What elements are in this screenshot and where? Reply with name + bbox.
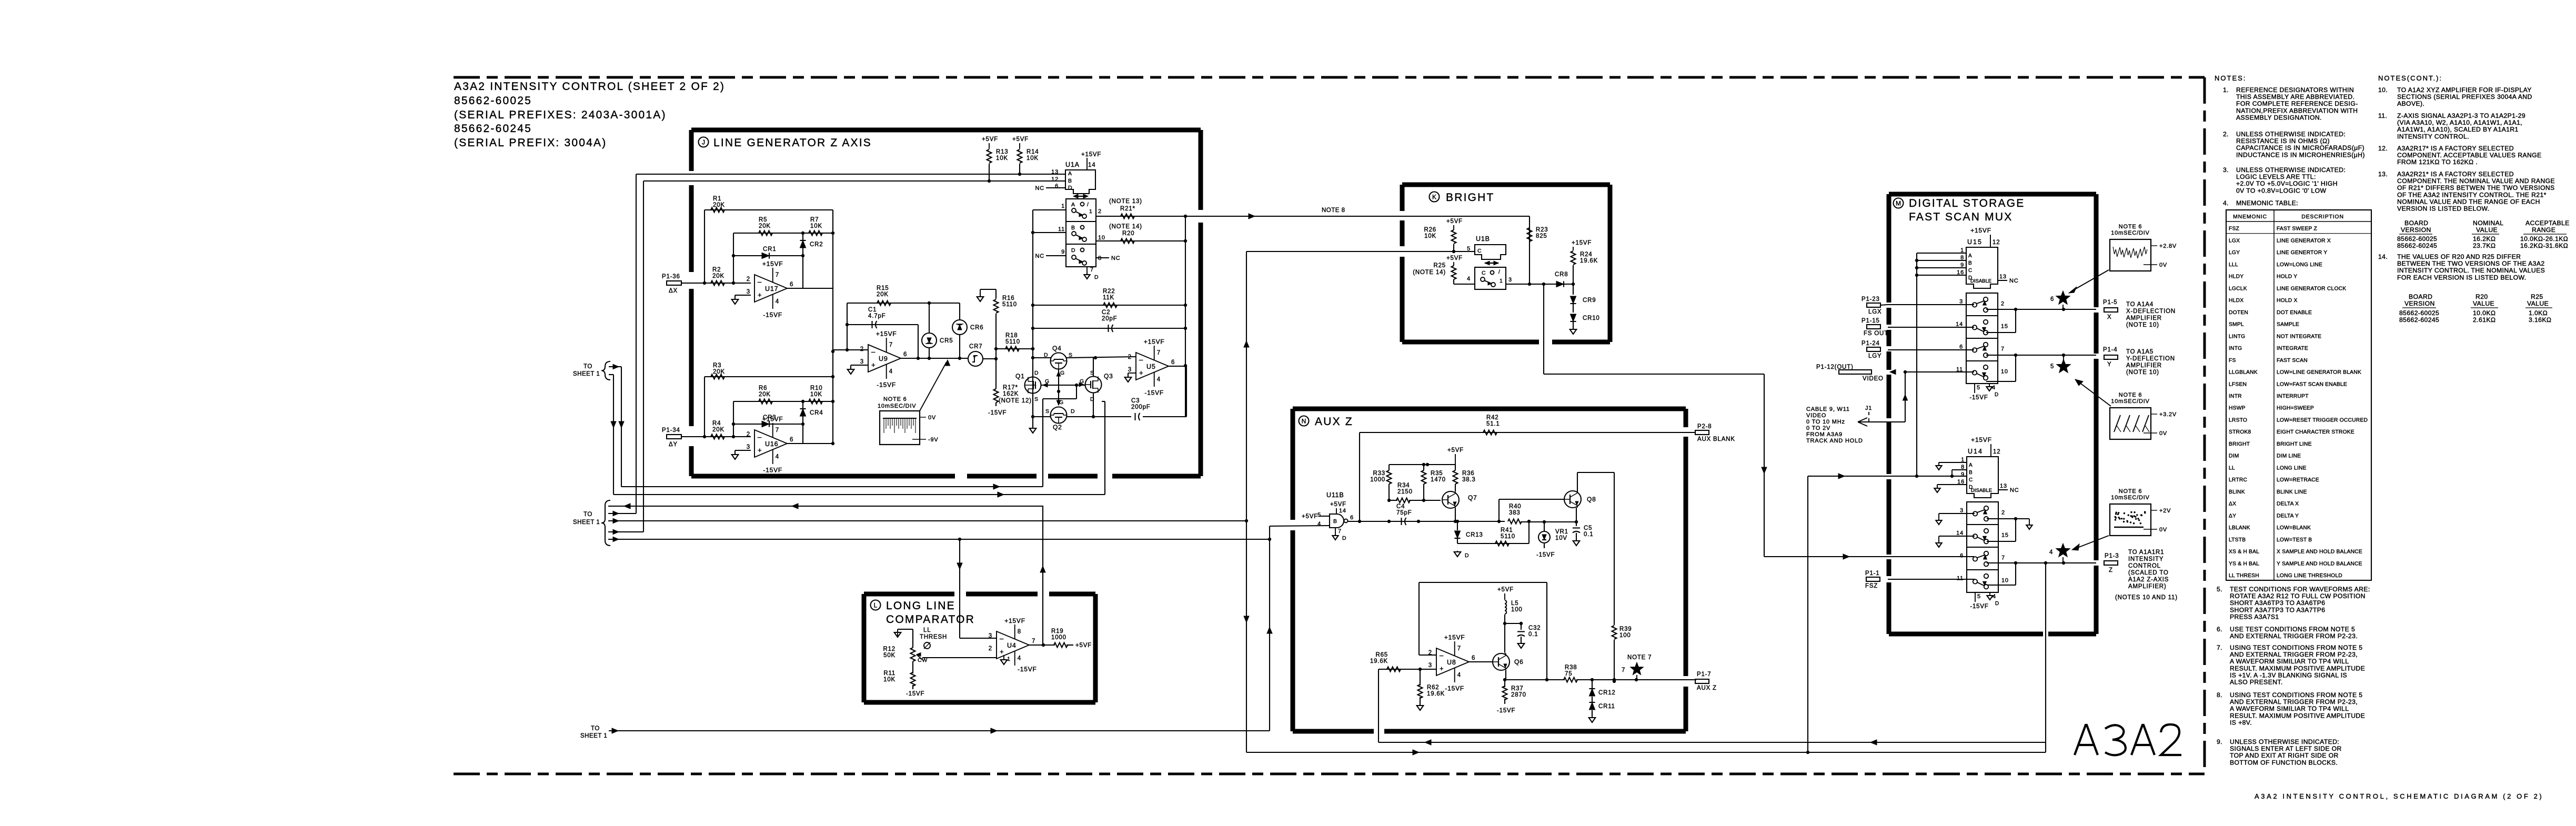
svg-text:10K: 10K	[810, 391, 822, 398]
svg-text:-15VF: -15VF	[1970, 603, 1988, 610]
svg-text:AUX BLANK: AUX BLANK	[1697, 436, 1735, 442]
svg-text:0V: 0V	[2159, 430, 2167, 437]
double arrow U1B	[1485, 263, 1498, 264]
svg-text:6: 6	[1350, 515, 1354, 521]
svg-text:7: 7	[889, 342, 893, 348]
wire U15 sec1 input from P1-23	[1888, 304, 1974, 305]
svg-text:LGCLK: LGCLK	[2229, 286, 2247, 291]
svg-text:G: G	[1060, 370, 1065, 376]
svg-text:100: 100	[1511, 607, 1523, 613]
svg-text:SECTIONS (SERIAL PREFIXES 3004: SECTIONS (SERIAL PREFIXES 3004A AND	[2397, 93, 2532, 100]
svg-text:2: 2	[1098, 208, 1102, 215]
svg-text:5: 5	[1977, 385, 1980, 391]
vertical x2413 U11B feed	[1269, 526, 1270, 731]
svg-text:ALSO PRESENT.: ALSO PRESENT.	[2230, 679, 2283, 686]
svg-text:L: L	[874, 602, 878, 609]
wire BRIGHT C input	[1402, 251, 1475, 252]
svg-text:RANGE: RANGE	[2532, 226, 2555, 234]
svg-text:2: 2	[1428, 650, 1432, 656]
svg-text:9: 9	[1961, 471, 1965, 478]
svg-text:DELTA X: DELTA X	[2277, 501, 2299, 507]
svg-text:D: D	[1090, 396, 1094, 402]
svg-text:3: 3	[747, 289, 750, 295]
wire U15 sec1 output y588	[1986, 309, 2096, 310]
svg-text:(NOTE 10): (NOTE 10)	[2126, 322, 2159, 328]
svg-text:R20: R20	[1122, 230, 1135, 237]
svg-text:B: B	[1071, 225, 1075, 231]
svg-text:10mSEC/DIV: 10mSEC/DIV	[2111, 398, 2149, 405]
svg-text:R39: R39	[1619, 626, 1632, 632]
resistor R23 825	[1529, 216, 1530, 284]
diode CR8	[1544, 284, 1573, 285]
svg-text:NOTE 6: NOTE 6	[2119, 392, 2142, 398]
svg-text:/: /	[1087, 202, 1089, 208]
svg-text:LINTG: LINTG	[2229, 334, 2245, 339]
svg-text:13: 13	[1999, 274, 2007, 280]
svg-text:+15VF: +15VF	[1004, 617, 1025, 624]
ground below x1963	[1032, 424, 1033, 428]
svg-text:LOW=TEST B: LOW=TEST B	[2277, 537, 2312, 543]
svg-text:20K: 20K	[877, 291, 889, 298]
svg-text:7: 7	[2001, 346, 2005, 352]
svg-text:PRESS A3A7S1: PRESS A3A7S1	[2230, 613, 2279, 620]
svg-text:R17*: R17*	[1003, 385, 1018, 391]
svg-text:3: 3	[1508, 277, 1512, 283]
svg-text:+2.0V TO +5.0V=LOGIC '1' HIGH: +2.0V TO +5.0V=LOGIC '1' HIGH	[2236, 180, 2338, 187]
svg-text:SMPL: SMPL	[2229, 322, 2244, 328]
vertical x2253 output node	[1185, 216, 1186, 417]
svg-text:6: 6	[1960, 552, 1964, 559]
svg-text:SIGNALS ENTER AT LEFT SIDE OR: SIGNALS ENTER AT LEFT SIDE OR	[2230, 745, 2342, 752]
vertical x1982 comparator output	[1042, 506, 1043, 644]
svg-text:CR7: CR7	[969, 344, 982, 350]
svg-text:-15VF: -15VF	[1445, 685, 1464, 692]
svg-text:Y: Y	[2107, 361, 2111, 368]
svg-text:R25: R25	[2531, 293, 2543, 300]
svg-text:HOLD X: HOLD X	[2277, 298, 2298, 304]
svg-text:23.7KΩ: 23.7KΩ	[2473, 242, 2495, 249]
svg-text:B: B	[1968, 260, 1972, 266]
svg-text:UNLESS OTHERWISE INDICATED:: UNLESS OTHERWISE INDICATED:	[2230, 738, 2339, 746]
svg-text:A WAVEFORM SIMILIAR TO TP4 WIL: A WAVEFORM SIMILIAR TO TP4 WILL	[2230, 658, 2349, 665]
transistor Q3 FET	[1085, 377, 1102, 393]
svg-text:4: 4	[1317, 521, 1321, 527]
svg-text:–: –	[1440, 651, 1444, 659]
wire R16 to node	[995, 314, 997, 359]
svg-text:LONG LINE: LONG LINE	[2277, 465, 2307, 471]
svg-text:Q3: Q3	[1104, 372, 1113, 380]
svg-text:D: D	[1034, 370, 1039, 376]
wire U15 sec2 input from P1-15	[1888, 327, 1974, 328]
svg-text:P1-36: P1-36	[662, 274, 680, 280]
svg-text:INTENSITY: INTENSITY	[2128, 556, 2164, 562]
arrow wavebox1 to star6	[2072, 270, 2109, 291]
svg-text:TO: TO	[583, 364, 592, 370]
vertical x3436 select feed from bus	[1807, 476, 1808, 752]
vertical x1963 main node	[1032, 210, 1033, 424]
svg-text:CR5: CR5	[940, 338, 953, 344]
svg-text:LL THRESH: LL THRESH	[2229, 573, 2259, 579]
wire Q1 Q3 gate	[1041, 385, 1085, 386]
svg-text:FSZ: FSZ	[1865, 583, 1878, 589]
svg-text:NOT INTEGRATE: NOT INTEGRATE	[2277, 334, 2321, 339]
svg-text:(SERIAL PREFIXES: 2403A-3001A): (SERIAL PREFIXES: 2403A-3001A)	[454, 109, 667, 121]
vertical x3068 to R39	[1614, 472, 1615, 625]
svg-text:INTEGRATE: INTEGRATE	[2277, 346, 2308, 351]
U14 sec2 input gnd stub	[1939, 536, 1975, 537]
svg-text:COMPONENT. ACCEPTABLE VALUES R: COMPONENT. ACCEPTABLE VALUES RANGE	[2397, 152, 2542, 159]
svg-text:6: 6	[2050, 296, 2054, 303]
svg-text:INDUCTANCE IS IN MICROHENRIES(: INDUCTANCE IS IN MICROHENRIES(μH)	[2236, 151, 2365, 158]
svg-text:2150: 2150	[1397, 489, 1413, 495]
svg-text:NOTE 6: NOTE 6	[2119, 224, 2142, 230]
svg-text:A WAVEFORM SIMILIAR TO TP4 WIL: A WAVEFORM SIMILIAR TO TP4 WILL	[2230, 705, 2349, 712]
svg-text:10.0KΩ: 10.0KΩ	[2473, 309, 2495, 317]
svg-text:B: B	[1969, 470, 1973, 476]
svg-text:D: D	[1995, 601, 1999, 607]
svg-text:TEST CONDITIONS FOR WAVEFORMS: TEST CONDITIONS FOR WAVEFORMS ARE:	[2230, 586, 2370, 593]
svg-text:A3A2R17* IS A FACTORY SELECTED: A3A2R17* IS A FACTORY SELECTED	[2397, 145, 2514, 152]
svg-text:AND EXTERNAL TRIGGER FROM P2-2: AND EXTERNAL TRIGGER FROM P2-23.	[2230, 632, 2358, 640]
svg-text:HSWP: HSWP	[2229, 406, 2246, 411]
svg-text:R35: R35	[1431, 470, 1443, 477]
svg-text:SHEET 1: SHEET 1	[573, 519, 600, 526]
svg-text:13.: 13.	[2378, 170, 2388, 178]
transistor Q4 FET	[1051, 353, 1067, 369]
svg-text:MNEMONIC TABLE:: MNEMONIC TABLE:	[2236, 199, 2298, 207]
wire R22 line y580	[1033, 305, 1185, 306]
wire Q8 collector	[1577, 472, 1578, 493]
svg-text:3: 3	[1428, 662, 1432, 669]
svg-text:NOTE 8: NOTE 8	[1322, 207, 1345, 214]
svg-text:ABOVE).: ABOVE).	[2397, 100, 2424, 107]
svg-text:+: +	[1139, 369, 1143, 377]
svg-text:1.: 1.	[2223, 86, 2229, 94]
svg-text:+15VF: +15VF	[762, 415, 783, 422]
svg-text:BOTTOM OF FUNCTION BLOCKS.: BOTTOM OF FUNCTION BLOCKS.	[2230, 759, 2338, 766]
U14 sec3 input wire y1058	[1889, 556, 1975, 557]
svg-text:C1: C1	[868, 307, 877, 313]
svg-text:U4: U4	[1007, 642, 1017, 649]
svg-text:VALUE: VALUE	[2476, 226, 2498, 234]
svg-text:LOW=RETRACE: LOW=RETRACE	[2277, 477, 2319, 483]
svg-text:LBLANK: LBLANK	[2229, 525, 2250, 531]
svg-text:CR11: CR11	[1598, 703, 1615, 710]
svg-text:SHORT A3A6TP3 TO A3A6TP6: SHORT A3A6TP3 TO A3A6TP6	[2230, 599, 2325, 607]
svg-text:FOR EACH VERSION IS LISTED BEL: FOR EACH VERSION IS LISTED BELOW.	[2397, 274, 2527, 281]
svg-text:YS & H BAL: YS & H BAL	[2229, 561, 2259, 567]
ground R12 top	[897, 631, 898, 632]
vertical C1 right to output	[918, 325, 919, 358]
svg-text:AMPLIFIER: AMPLIFIER	[2126, 315, 2162, 321]
svg-text:P1-3: P1-3	[2105, 553, 2119, 559]
svg-text:7: 7	[776, 272, 779, 278]
block border DIGITAL STORAGE FAST SCAN MUX	[1889, 192, 2096, 197]
svg-text:(NOTES 10 AND 11): (NOTES 10 AND 11)	[2115, 595, 2178, 601]
svg-text:A: A	[1068, 170, 1072, 177]
wire y905 select feed	[1812, 476, 1967, 477]
svg-text:–: –	[871, 348, 876, 356]
svg-text:20K: 20K	[713, 369, 725, 375]
wire U15 sec4 output to P1-12 VIDEO	[1905, 371, 1974, 372]
svg-text:VIDEO: VIDEO	[1806, 412, 1826, 419]
vertical x1824 into comparator	[959, 539, 960, 630]
wire y1058 into U14 sec3	[1764, 556, 1974, 557]
svg-text:+5VF: +5VF	[1330, 501, 1346, 508]
svg-text:DESCRIPTION: DESCRIPTION	[2301, 214, 2344, 220]
bus wire y1010 to comparator	[959, 531, 960, 532]
svg-text:OF R21* DIFFERS BETWEN THE TWO: OF R21* DIFFERS BETWEN THE TWO VERSIONS	[2397, 184, 2555, 192]
svg-text:Q1: Q1	[1015, 372, 1025, 380]
vertical R42 to U11B output	[1359, 432, 1360, 521]
transistor Q2 FET	[1051, 407, 1067, 424]
svg-text:7: 7	[1090, 267, 1094, 273]
wire U1B output	[1506, 284, 1544, 285]
U1A switch box	[1066, 199, 1096, 267]
diode CR13	[1457, 521, 1458, 529]
svg-text:-9V: -9V	[928, 437, 939, 443]
svg-text:6: 6	[1055, 183, 1059, 189]
svg-text:+15VF: +15VF	[1970, 227, 1991, 234]
svg-text:CR4: CR4	[810, 410, 823, 416]
svg-text:85662-60025: 85662-60025	[2399, 309, 2439, 317]
svg-text:7: 7	[2001, 555, 2005, 561]
svg-text:U9: U9	[879, 355, 888, 362]
bus wire y344 to U1A pin12	[643, 180, 1065, 182]
wire y711 to digital storage	[1544, 374, 1764, 375]
svg-text:Q2: Q2	[1053, 424, 1062, 431]
svg-text:-15VF: -15VF	[763, 311, 782, 319]
svg-text:SAMPLE: SAMPLE	[2277, 322, 2299, 328]
svg-text:0.1: 0.1	[1584, 531, 1593, 538]
svg-text:7: 7	[1032, 638, 1035, 644]
svg-text:+: +	[1440, 664, 1444, 672]
svg-text:+15VF: +15VF	[1081, 152, 1101, 158]
svg-text:FAST SCAN MUX: FAST SCAN MUX	[1909, 211, 2012, 223]
svg-text:8: 8	[1098, 255, 1102, 261]
svg-text:R15: R15	[877, 285, 889, 291]
svg-text:R37: R37	[1511, 686, 1524, 692]
svg-text:NC: NC	[1111, 255, 1121, 261]
U14 sec4 input from P1-1 FSZ	[1888, 579, 1975, 580]
wire R1 loop	[705, 209, 833, 210]
wire C3 to output node	[1143, 416, 1186, 417]
svg-text:P1-23: P1-23	[1861, 296, 1880, 303]
svg-text:R36: R36	[1462, 470, 1475, 477]
svg-text:0V: 0V	[2159, 262, 2167, 268]
star 5	[2057, 359, 2071, 372]
svg-text:LINE GENERTOR Y: LINE GENERTOR Y	[2277, 250, 2327, 256]
wire Q1 vertical	[1032, 366, 1033, 377]
svg-text:CR10: CR10	[1583, 315, 1600, 321]
svg-text:10K: 10K	[1424, 233, 1436, 239]
svg-text:+: +	[758, 291, 762, 299]
svg-text:Q6: Q6	[1514, 658, 1524, 666]
U15 select bus	[1917, 253, 1966, 254]
svg-text:2: 2	[989, 646, 992, 652]
svg-text:5110: 5110	[1002, 301, 1017, 308]
svg-text:OF THE A3A2 INTENSITY CONTROL.: OF THE A3A2 INTENSITY CONTROL. THE R21*	[2397, 191, 2547, 198]
transistor Q7	[1442, 491, 1459, 508]
diode CR11	[1592, 697, 1593, 702]
svg-text:UNLESS OTHERWISE INDICATED:: UNLESS OTHERWISE INDICATED:	[2236, 166, 2346, 174]
svg-text:1.0KΩ: 1.0KΩ	[2529, 309, 2548, 317]
svg-text:XS & H BAL: XS & H BAL	[2229, 549, 2259, 555]
svg-text:2: 2	[2001, 510, 2005, 516]
svg-text:FS OUT: FS OUT	[1864, 330, 1888, 337]
U14 sec4 output to node	[1987, 585, 2016, 586]
svg-text:CR12: CR12	[1598, 690, 1616, 696]
wire R3 loop	[705, 376, 833, 377]
svg-text:LOW=LONG LINE: LOW=LONG LINE	[2277, 262, 2322, 268]
svg-text:X-DEFLECTION: X-DEFLECTION	[2126, 308, 2176, 315]
svg-text:+5VF: +5VF	[1075, 642, 1092, 649]
vertical x3353 down	[1764, 374, 1765, 557]
svg-text:G: G	[1059, 399, 1064, 406]
svg-text:STROK8: STROK8	[2229, 429, 2251, 435]
svg-text:CABLE 9, W11: CABLE 9, W11	[1806, 406, 1850, 412]
svg-text:+5VF: +5VF	[1447, 447, 1464, 454]
svg-text:R40: R40	[1509, 503, 1522, 510]
svg-text:11: 11	[1058, 226, 1065, 233]
wavebox tick -9V	[912, 439, 926, 440]
svg-text:K: K	[1432, 194, 1436, 201]
svg-text:20pF: 20pF	[1102, 316, 1117, 322]
resistor R11 10K	[912, 661, 913, 673]
svg-text:A: A	[1968, 253, 1972, 259]
wire Q8 emitter	[1576, 508, 1577, 522]
svg-text:P1-5: P1-5	[2103, 299, 2118, 306]
transistor Q1 FET	[1025, 377, 1041, 394]
svg-text:75pF: 75pF	[1396, 510, 1412, 516]
svg-text:LOW=LINE GENERATOR BLANK: LOW=LINE GENERATOR BLANK	[2277, 370, 2361, 376]
wire Q6 collector	[1505, 652, 1506, 656]
wire NOTE8 inside BRIGHT to R23	[1402, 216, 1529, 217]
svg-text:12: 12	[1993, 449, 2000, 455]
svg-text:4.7pF: 4.7pF	[868, 313, 885, 319]
svg-text:85662-60025: 85662-60025	[454, 95, 532, 107]
svg-text:ΔY: ΔY	[669, 441, 678, 448]
svg-text:9.: 9.	[2217, 738, 2222, 746]
svg-text:0V: 0V	[928, 415, 936, 421]
svg-text:10.0KΩ-26.1KΩ: 10.0KΩ-26.1KΩ	[2520, 235, 2568, 243]
svg-text:Q7: Q7	[1468, 494, 1477, 501]
svg-text:+15VF: +15VF	[762, 260, 783, 267]
svg-text:VR1: VR1	[1555, 529, 1568, 535]
svg-text:6: 6	[1472, 655, 1475, 661]
svg-text:D: D	[1094, 274, 1099, 280]
svg-text:ΔX: ΔX	[2229, 501, 2236, 507]
feedback rect U8 top	[1419, 582, 1547, 583]
svg-text:LLL: LLL	[2229, 262, 2238, 268]
svg-text:R12: R12	[883, 646, 896, 652]
svg-text:D: D	[1068, 185, 1072, 191]
resistor R62 19.6K	[1418, 668, 1422, 671]
svg-text:2: 2	[860, 346, 864, 352]
label -15VF below R11	[912, 685, 913, 689]
svg-text:ΔY: ΔY	[2229, 513, 2236, 519]
vertical x1610 feedback	[847, 303, 848, 350]
svg-text:10.: 10.	[2378, 86, 2388, 94]
svg-text:LL: LL	[2229, 465, 2235, 471]
svg-text:TO A1A4: TO A1A4	[2126, 301, 2154, 308]
wire R12 top	[897, 629, 898, 637]
wire J1 to VIDEO node	[1858, 421, 1905, 422]
svg-text:LGX: LGX	[2229, 238, 2240, 244]
svg-text:P1-4: P1-4	[2103, 347, 2118, 353]
resistor R17* 162K	[994, 389, 999, 402]
svg-text:R5: R5	[759, 217, 767, 223]
svg-text:C3: C3	[1131, 398, 1140, 404]
wire Q-drain down x2046	[1076, 385, 1077, 399]
wire BRIGHT input y478	[1246, 251, 1475, 252]
op-amp U16	[754, 430, 787, 457]
svg-text:VIDEO: VIDEO	[1863, 376, 1884, 382]
wire feedback rail y576	[847, 303, 960, 304]
svg-text:U5: U5	[1146, 363, 1156, 370]
svg-text:+5VF: +5VF	[1302, 513, 1318, 520]
diode CR12	[1592, 680, 1593, 688]
svg-text:38.3: 38.3	[1462, 477, 1476, 483]
svg-text:COMPONENT. THE NOMINAL VALUE A: COMPONENT. THE NOMINAL VALUE AND RANGE	[2397, 177, 2555, 185]
svg-text:825: 825	[1536, 233, 1547, 239]
wire U15 sec3 output y675	[1986, 355, 2096, 356]
svg-text:1000: 1000	[1051, 634, 1066, 641]
svg-text:LONG LINE: LONG LINE	[886, 600, 955, 612]
svg-text:LTSTB: LTSTB	[2229, 537, 2246, 543]
svg-text:R3: R3	[713, 362, 721, 369]
svg-text:15: 15	[2001, 532, 2009, 539]
svg-text:C: C	[1477, 248, 1482, 254]
svg-text:BRIGHT: BRIGHT	[2229, 441, 2250, 447]
svg-text:AMPLIFIER: AMPLIFIER	[2126, 362, 2162, 369]
svg-text:6: 6	[1959, 344, 1963, 350]
svg-text:R22: R22	[1103, 288, 1115, 295]
U1B switch box	[1475, 267, 1506, 289]
svg-text:2.61KΩ: 2.61KΩ	[2473, 316, 2495, 324]
ground U16 pin3	[735, 450, 751, 451]
diode CR10	[1573, 304, 1574, 313]
star 4	[2056, 543, 2070, 557]
svg-text:P1-15: P1-15	[1861, 318, 1880, 324]
svg-text:SHORT A3A7TP3 TO A3A7TP6: SHORT A3A7TP3 TO A3A7TP6	[2230, 606, 2325, 613]
svg-text:Y SAMPLE AND HOLD BALANCE: Y SAMPLE AND HOLD BALANCE	[2277, 561, 2362, 567]
svg-text:LL: LL	[923, 627, 931, 633]
svg-text:IS +1V. A -1.3V BLANKING SIGNA: IS +1V. A -1.3V BLANKING SIGNAL IS	[2230, 671, 2347, 679]
svg-text:3: 3	[1128, 367, 1132, 373]
svg-text:C2: C2	[1102, 309, 1110, 316]
zener VR1	[1544, 522, 1545, 531]
svg-text:5: 5	[2050, 364, 2054, 370]
block border LINE GENERATOR Z AXIS	[691, 128, 1201, 133]
svg-text:S: S	[1034, 396, 1039, 402]
svg-text:Q8: Q8	[1587, 496, 1596, 503]
svg-text:Q4: Q4	[1052, 345, 1062, 352]
svg-text:R20: R20	[2476, 293, 2488, 300]
svg-text:NC: NC	[1035, 253, 1045, 259]
svg-text:5: 5	[1317, 512, 1321, 518]
bus wire y990 to BRIGHT riser	[608, 520, 1246, 521]
svg-text:14.: 14.	[2378, 253, 2388, 260]
svg-text:NATION,PREFIX ABBREVIATION WIT: NATION,PREFIX ABBREVIATION WITH	[2236, 107, 2358, 114]
svg-text:P1-24: P1-24	[1861, 340, 1880, 347]
wire R41 up to node	[1528, 521, 1529, 543]
svg-text:7.: 7.	[2217, 644, 2222, 651]
svg-text:VERSION IS LISTED BELOW.: VERSION IS LISTED BELOW.	[2397, 205, 2490, 213]
svg-text:INTR: INTR	[2229, 394, 2242, 399]
svg-text:3.: 3.	[2223, 166, 2229, 174]
svg-text:A: A	[1071, 202, 1075, 208]
